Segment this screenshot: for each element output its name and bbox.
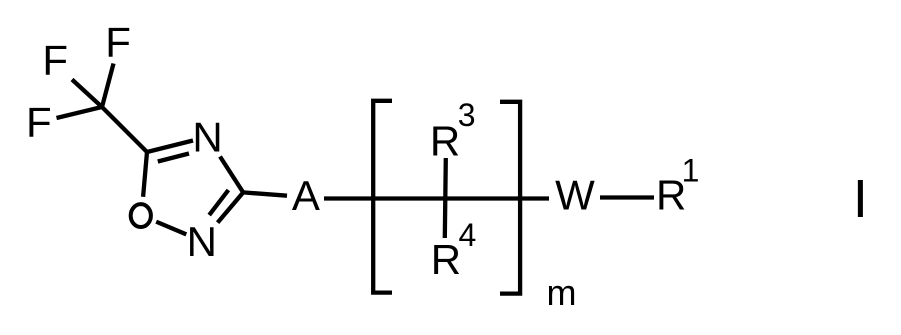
svg-text:W: W	[555, 172, 595, 219]
wire: bond W-R1	[600, 195, 654, 199]
wire: ring bond N2-O1	[156, 222, 186, 235]
wire: vertical bond R3-C-R4	[445, 158, 446, 238]
wire: ring bonds N4=C5-O1 (main line of double bond + single bond to O)	[143, 141, 193, 197]
svg-text:3: 3	[458, 97, 476, 133]
svg-text:A: A	[292, 172, 320, 219]
wire: bond F3-C(F3)-F2 polyline through CF3 carbon	[57, 64, 114, 119]
svg-text:I: I	[853, 169, 868, 229]
svg-text:R: R	[430, 118, 460, 165]
wire: inner line of C3=N2 double bond	[209, 190, 228, 215]
wire: bond C5-C(F3)-F1 polyline through CF3 carbon	[72, 80, 147, 153]
wire: main horizontal bond A to W through brackets	[324, 196, 549, 200]
bracket left [	[373, 101, 392, 293]
svg-text:1: 1	[682, 152, 700, 188]
svg-text:N: N	[187, 218, 217, 265]
svg-text:F: F	[26, 99, 52, 146]
node O1: ring oxygen (drawn as ellipse to match glyph)	[131, 204, 151, 227]
wire: ring bonds N4-C3=N2 (single bond + main line of double bond)	[218, 157, 244, 223]
svg-text:m: m	[547, 272, 577, 313]
bracket right ]	[500, 102, 520, 294]
wire: inner line of C5=N4 double bond	[158, 154, 189, 162]
svg-text:F: F	[42, 37, 68, 84]
svg-text:4: 4	[459, 217, 477, 253]
svg-text:F: F	[105, 19, 131, 66]
svg-text:R: R	[431, 236, 461, 283]
wire: bond C3-A	[243, 192, 287, 195]
svg-text:N: N	[192, 113, 222, 160]
